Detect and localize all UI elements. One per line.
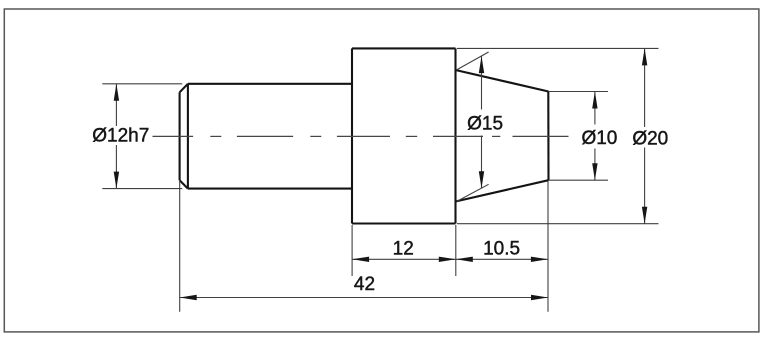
svg-text:42: 42 [354,274,375,295]
arrowhead 10.5 left [456,257,473,262]
dimension line dia20 upper segment [644,48,646,127]
part outline: chamfer bottom diagonal [180,180,188,188]
part outline: chamfer top diagonal [180,84,188,93]
part outline: left chamfer vertical edge [179,92,181,180]
arrowhead dia10 down [592,163,597,180]
arrowhead dia20 up [642,48,647,65]
arrowhead dia10 up [592,92,597,109]
part outline: small shaft top edge [188,83,352,85]
part outline: small shaft bottom edge [188,188,352,190]
part outline: big cylinder right face [454,48,456,223]
svg-text:Ø10: Ø10 [581,128,617,149]
extension line dia20 top [457,47,659,49]
svg-text:12: 12 [393,239,414,260]
arrowhead dia20 down [642,207,647,224]
extension line 12/10.5 shared vertical [455,225,457,276]
svg-text:Ø12h7: Ø12h7 [92,126,149,147]
arrowhead 12 left [352,257,369,262]
dimension line dia12 lower segment [115,145,117,189]
svg-text:Ø20: Ø20 [632,129,668,150]
extension line 12 left vertical [351,225,353,276]
arrowhead dia12 up [114,84,119,101]
arrowhead 42 right [531,295,548,300]
extension line dia20 bottom [457,223,659,225]
dimension line 10.5 [456,258,548,260]
arrowhead 42 left [180,295,197,300]
svg-text:10.5: 10.5 [483,239,520,260]
extension line 42 left vertical [179,181,181,312]
dimension line dia12 upper segment [115,84,117,126]
part outline: cone top edge [456,70,549,92]
svg-text:Ø15: Ø15 [467,114,503,135]
dimension line 42 [180,297,548,299]
arrowhead 12 right [439,257,456,262]
extension line dia12 bottom [102,188,182,190]
dimension line dia20 lower segment [644,148,646,224]
dimension line dia10 lower segment [594,149,596,181]
extension line dia10 top [549,91,609,93]
dimension line 12 [352,258,456,260]
part outline: cone bottom edge [456,180,549,201]
arrowhead dia15 down [479,171,484,188]
extension line dia15 oblique bottom [457,184,489,201]
extension line dia12 top [102,83,182,85]
part outline: big cylinder top edge [352,47,456,49]
part outline: left face line [187,84,189,189]
part outline: big cylinder bottom edge [352,222,456,224]
extension line dia15 oblique top [457,52,489,70]
part outline: right end face [547,92,549,181]
arrowhead dia12 down [114,172,119,189]
centerline (dash-dot axis) [153,135,569,137]
part outline: big cylinder left face [351,48,353,223]
extension line 10.5/42 shared vertical [547,182,549,312]
arrowhead dia15 up [479,56,484,73]
dimension line dia10 upper segment [594,92,596,125]
dimension line dia15 upper segment [481,56,483,109]
extension line dia10 bottom [549,179,609,181]
dimension line dia15 lower segment [481,136,483,189]
arrowhead 10.5 right [531,257,548,262]
